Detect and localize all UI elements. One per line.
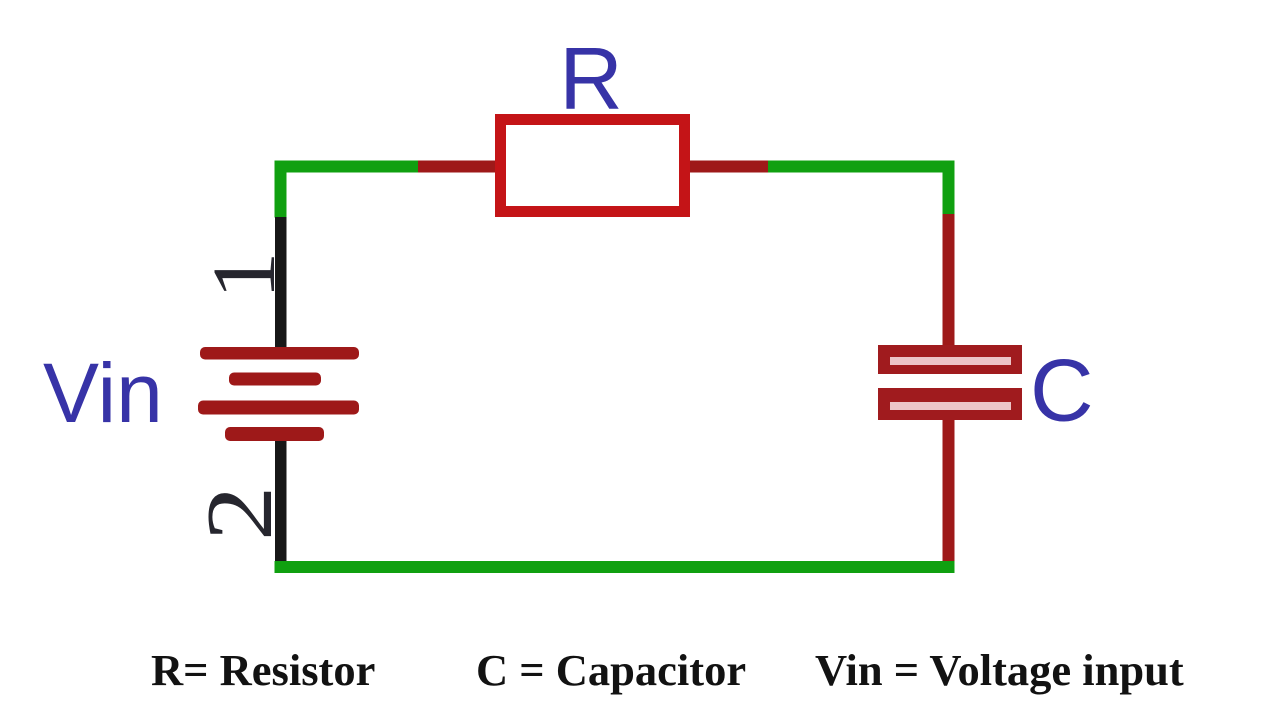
battery Vin (voltage source) — [198, 347, 359, 441]
wire: right dark red vertical lower — [943, 415, 955, 563]
svg-text:R: R — [559, 29, 623, 128]
svg-text:R= Resistor: R= Resistor — [151, 645, 375, 695]
wire: right green vertical — [943, 161, 955, 216]
wire: dark red into resistor left — [416, 161, 498, 173]
wire: top-left green horizontal — [275, 161, 419, 173]
wire: left black vertical lower (node 2) — [275, 430, 287, 562]
capacitor C plate top — [878, 345, 1022, 374]
svg-text:C: C — [1030, 341, 1094, 440]
wire: dark red out of resistor right — [687, 161, 770, 173]
capacitor C plate bottom — [878, 388, 1022, 420]
resistor R — [501, 120, 685, 212]
wire: right dark red vertical upper — [943, 214, 955, 350]
wire: bottom green horizontal — [275, 561, 955, 573]
svg-text:C = Capacitor: C = Capacitor — [476, 645, 746, 695]
svg-text:2: 2 — [187, 486, 292, 541]
wire: top-left green vertical — [275, 161, 287, 218]
wire: top-right green horizontal — [768, 161, 955, 173]
svg-text:1: 1 — [195, 251, 295, 299]
svg-text:Vin = Voltage input: Vin = Voltage input — [815, 645, 1184, 695]
svg-text:Vin: Vin — [43, 346, 163, 440]
wire: left black vertical upper (node 1) — [275, 217, 287, 353]
